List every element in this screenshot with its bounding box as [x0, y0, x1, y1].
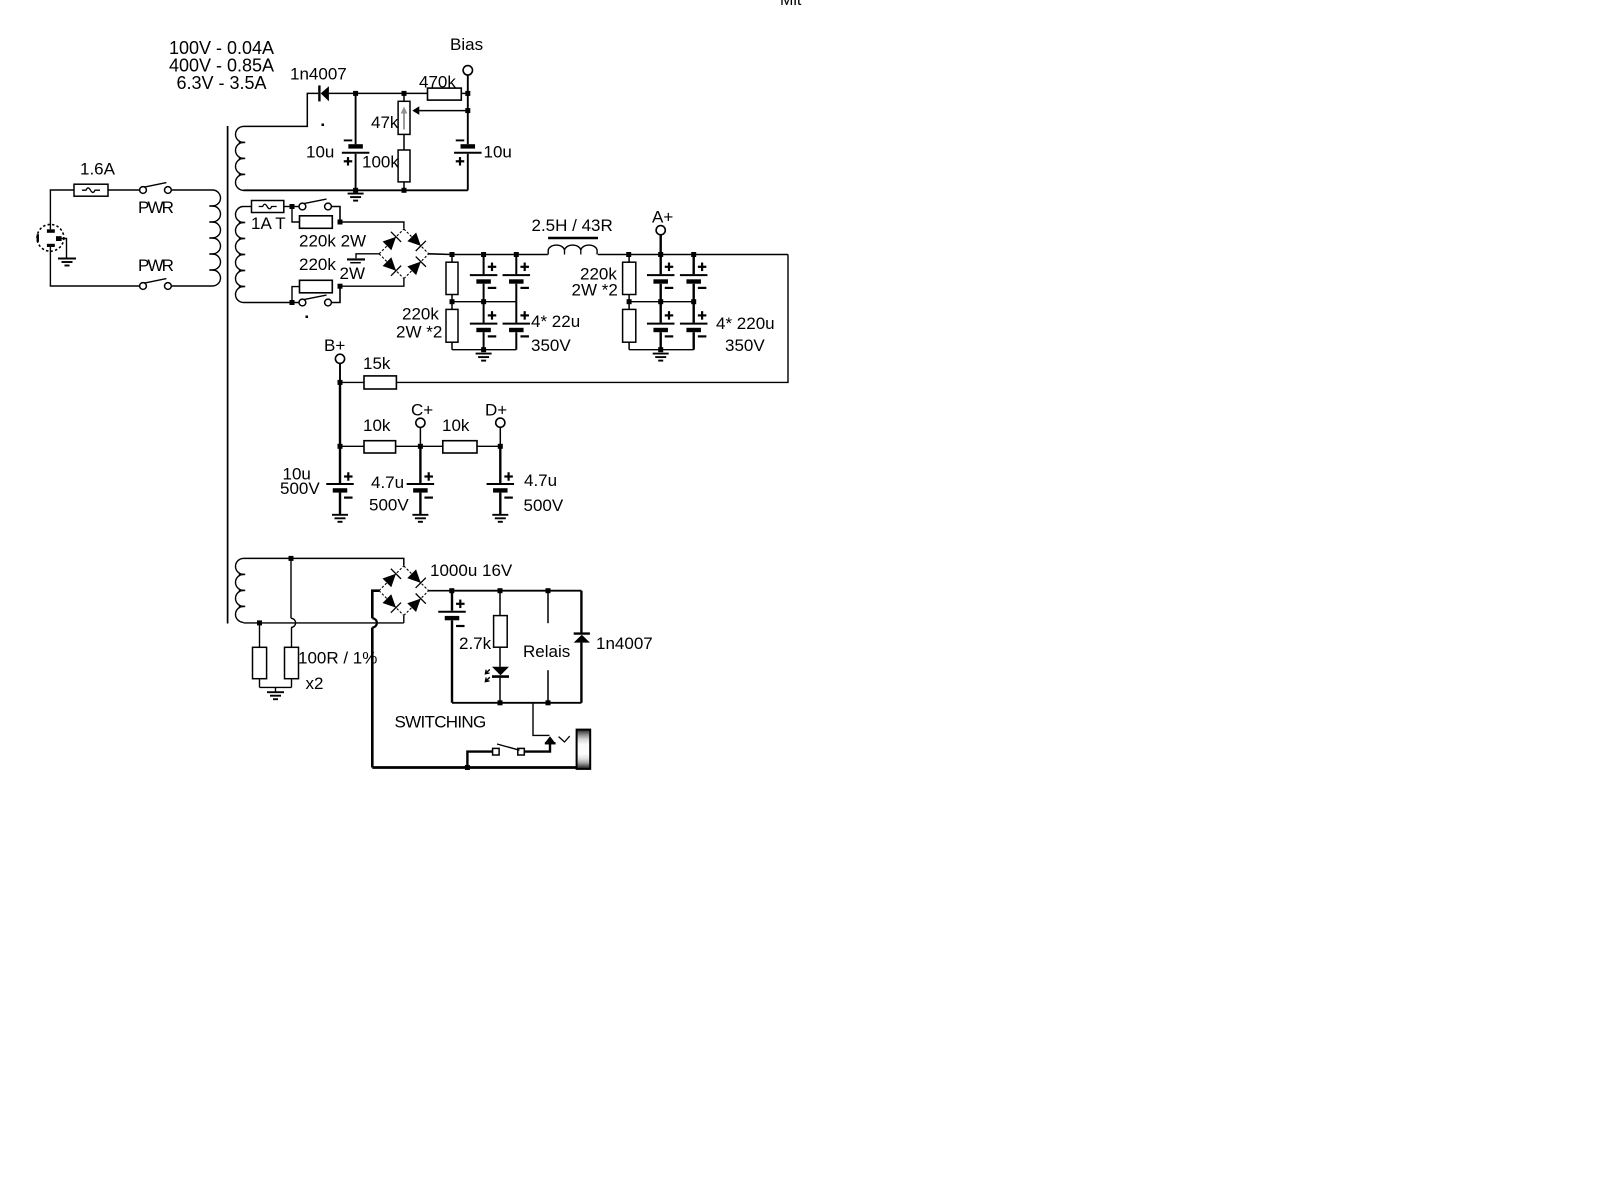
relay K1 coil	[547, 591, 549, 703]
junction mid/C8	[691, 299, 696, 304]
minus C14	[456, 625, 465, 627]
resistor R5 220k (upper left chain)	[446, 255, 458, 302]
wire S5 to bottom rail	[467, 752, 492, 768]
wire junction to R3	[292, 207, 300, 223]
wire A+ to rail	[660, 235, 662, 255]
wire fuse to junction	[284, 206, 299, 208]
bottom row right bank	[629, 349, 694, 351]
junction bottom/LED	[498, 700, 503, 705]
svg-text:D+: D+	[485, 400, 507, 419]
minus C5	[488, 335, 497, 337]
plus C14	[456, 600, 465, 609]
wire BR2 left down to switch row with hop	[372, 591, 379, 768]
svg-text:1n4007: 1n4007	[596, 634, 653, 653]
svg-text:350V: 350V	[725, 336, 765, 355]
plus C10	[698, 311, 707, 320]
minus C12	[424, 497, 433, 499]
terminal A+	[656, 226, 665, 235]
svg-text:10k: 10k	[363, 416, 391, 435]
svg-text:Relais: Relais	[523, 642, 570, 661]
junction LV top / sense wire	[289, 556, 294, 561]
ground left bank	[476, 354, 492, 361]
wire node to bridge top	[340, 222, 404, 229]
junction diode/cap	[353, 91, 358, 96]
plus C4	[520, 263, 529, 272]
svg-text:2.5H / 43R: 2.5H / 43R	[532, 216, 613, 235]
wire B+ node down to 10k row	[339, 382, 341, 446]
label plus C1	[344, 157, 353, 166]
terminal Bias	[463, 66, 472, 75]
svg-text:100R / 1%: 100R / 1%	[298, 648, 377, 667]
svg-text:6.3V - 3.5A: 6.3V - 3.5A	[176, 73, 266, 93]
svg-text:Mit: Mit	[780, 0, 802, 9]
junction BR2/C14	[449, 588, 454, 593]
relay contact arrow	[545, 736, 556, 743]
wire Bias terminal down	[467, 75, 469, 144]
minus C4	[520, 287, 529, 289]
capacitor C2 10u (bias right)	[454, 144, 482, 153]
junction rail/relay	[546, 588, 551, 593]
wire 10k to C+ node	[396, 445, 443, 447]
HV filter rail left	[452, 254, 548, 256]
svg-text:2W *2: 2W *2	[572, 281, 618, 300]
svg-text:500V: 500V	[524, 496, 564, 515]
resistor R11 10k	[443, 441, 477, 453]
label plus C2	[456, 157, 465, 166]
svg-text:2W: 2W	[340, 264, 366, 283]
junction pot top	[402, 91, 407, 96]
wire B+ down	[339, 363, 341, 382]
switch S3 (HV top)	[299, 203, 306, 210]
svg-text:B+: B+	[324, 336, 345, 355]
resistor R13 100R (sense #2)	[285, 647, 299, 687]
ground C13	[492, 515, 508, 522]
minus C7	[665, 287, 674, 289]
junction rail/R7	[626, 252, 631, 257]
terminal C+	[416, 418, 425, 427]
minus C9	[665, 335, 674, 337]
ground C11	[332, 515, 348, 522]
plus C5	[488, 311, 497, 320]
capacitor C4 (22u #2)	[503, 255, 531, 302]
resistor R14 2.7k	[494, 591, 508, 667]
wire S3 to node	[331, 207, 340, 223]
terminal D+	[496, 418, 505, 427]
wire fuse to switch S1	[108, 189, 140, 191]
ground C12	[412, 515, 428, 522]
diode D3 1n4007 (flyback)	[574, 591, 590, 703]
junction 470k right	[465, 91, 470, 96]
svg-text:PWR: PWR	[138, 256, 174, 275]
svg-text:10u: 10u	[306, 143, 334, 162]
label transformer ratings	[169, 38, 274, 93]
label minus C1	[344, 139, 353, 141]
svg-text:470k: 470k	[419, 72, 456, 91]
label 4.7u 500V first	[369, 473, 409, 515]
label minus C2	[456, 139, 465, 141]
ground HV bridge (2 bars)	[347, 259, 365, 262]
junction ground rail / 100k	[402, 188, 407, 193]
capacitor C5 (22u #3)	[470, 302, 498, 350]
capacitor C10 (220u #4)	[680, 302, 708, 350]
wire joining 100R bottoms	[260, 686, 292, 688]
label 4.7u 500V second	[524, 471, 564, 515]
wire HV winding bottom to junction	[244, 302, 300, 304]
junction mid/C7	[658, 299, 663, 304]
minus C11	[344, 497, 353, 499]
svg-text:500V: 500V	[369, 496, 409, 515]
svg-text:220k: 220k	[402, 305, 439, 324]
wire plug-top to fuse	[50, 190, 74, 229]
svg-text:47k: 47k	[371, 113, 399, 132]
wire bottom to bridge	[403, 616, 405, 623]
capacitor C8 (220u #2)	[680, 255, 708, 302]
switch S2 PWR (neutral)	[140, 283, 147, 290]
junction rail/C8	[691, 252, 696, 257]
wire junction to R4	[292, 287, 300, 303]
junction mid/R7	[627, 299, 632, 304]
mid row left bank	[452, 301, 516, 303]
inductor L1 2.5H/43R	[548, 238, 598, 255]
switch S5 output	[493, 744, 525, 755]
transformer core	[227, 126, 229, 624]
wire node to bridge bottom	[340, 279, 404, 286]
capacitor C13 4.7u 500V	[487, 446, 515, 514]
transformer HV secondary winding	[236, 207, 244, 303]
wire C2 to ground rail	[467, 154, 469, 191]
junction rail/C3	[481, 252, 486, 257]
junction winding bottom	[290, 300, 295, 305]
svg-text:C+: C+	[411, 400, 433, 419]
resistor R2 100k	[398, 150, 410, 182]
bottom row left bank	[452, 349, 516, 351]
capacitor C3 (22u #1)	[470, 255, 498, 302]
wire BR2 right to relay rail	[429, 590, 452, 592]
wire HV winding top to fuse	[244, 206, 252, 208]
junction rail/R5	[450, 252, 455, 257]
resistor R7 220k (upper right chain)	[623, 255, 636, 302]
svg-text:220k: 220k	[299, 255, 336, 274]
svg-text:4.7u: 4.7u	[524, 471, 557, 490]
node bias rail	[356, 92, 468, 94]
wire B+ to 15k	[340, 381, 364, 383]
svg-text:1.6A: 1.6A	[80, 160, 116, 179]
wiper arrow of P1	[412, 106, 468, 115]
wire bridge right to filter rail	[429, 253, 452, 256]
switch-row bottom rail	[372, 766, 576, 769]
plus C3	[488, 263, 497, 272]
wire plug-earth	[62, 239, 67, 259]
svg-text:2.7k: 2.7k	[459, 634, 492, 653]
svg-text:100k: 100k	[362, 153, 399, 172]
minus C8	[698, 287, 707, 289]
wire 100k to ground rail	[403, 182, 405, 190]
AC plug P1	[37, 224, 64, 251]
junction D+ node	[498, 444, 503, 449]
svg-text:1n4007: 1n4007	[290, 65, 347, 84]
resistor R3 220k 2W (top bleeder)	[300, 216, 333, 229]
minus C6	[520, 335, 529, 337]
transformer bias secondary winding	[236, 126, 244, 190]
bridge rectifier BR2 (LV)	[379, 566, 429, 616]
transformer LV secondary winding	[236, 558, 244, 622]
potentiometer P1 47k	[398, 93, 410, 134]
relay bottom rail	[452, 702, 581, 704]
earth ground of plug	[58, 259, 76, 266]
junction mid/R5	[450, 299, 455, 304]
relay supply rail	[452, 590, 581, 592]
svg-text:500V: 500V	[280, 479, 320, 498]
svg-text:10u: 10u	[484, 143, 512, 162]
HV filter rail right	[598, 254, 788, 256]
svg-text:10k: 10k	[442, 416, 470, 435]
resistor R9 15k	[364, 376, 396, 389]
transformer T1 primary winding	[213, 190, 221, 286]
junction bottom/C9	[658, 347, 663, 352]
ground right bank	[653, 354, 669, 361]
wire diode to node1	[329, 92, 356, 94]
svg-text:SWITCHING: SWITCHING	[395, 713, 486, 732]
junction R3 right	[338, 220, 343, 225]
junction rail/C4	[514, 252, 519, 257]
wire plug-bottom to switch S2	[50, 247, 139, 286]
stray dot	[322, 124, 325, 127]
svg-text:A+: A+	[652, 207, 673, 226]
wire S1 to primary	[171, 189, 212, 191]
LED D2	[485, 667, 509, 703]
plus C8	[698, 263, 707, 272]
svg-text:4* 220u: 4* 220u	[716, 314, 775, 333]
switch S1 PWR (line)	[140, 187, 147, 194]
resistor R12 100R (sense #1)	[253, 623, 267, 688]
wire relay to contact	[533, 703, 550, 736]
junction ground rail / C1	[353, 188, 358, 193]
wire C+ down	[419, 427, 421, 446]
terminal B+	[335, 354, 344, 363]
label 10u 500V	[280, 465, 320, 499]
resistor R8 220k (lower right chain)	[623, 302, 636, 350]
capacitor C9 (220u #3)	[647, 302, 675, 350]
wire S4 to node	[331, 286, 340, 302]
wire S2 to primary bottom	[171, 285, 212, 287]
wire bias winding top to diode	[244, 93, 319, 126]
ground bias	[348, 194, 364, 201]
plus C12	[424, 472, 433, 481]
bridge rectifier BR1 (HV)	[379, 229, 429, 279]
svg-text:PWR: PWR	[138, 198, 174, 217]
junction fuse out	[290, 204, 295, 209]
wire contact to switch S5	[524, 743, 550, 751]
minus C13	[504, 497, 512, 499]
svg-text:15k: 15k	[363, 354, 391, 373]
bias ground rail	[244, 189, 468, 191]
feedback loop right side	[396, 255, 788, 383]
junction B node row2	[338, 444, 343, 449]
capacitor C7 (220u #1)	[647, 255, 675, 302]
mid row right bank	[629, 301, 694, 303]
svg-text:220k 2W: 220k 2W	[299, 231, 366, 250]
junction bottom rail	[465, 765, 470, 770]
svg-text:Bias: Bias	[450, 35, 483, 54]
svg-text:2W *2: 2W *2	[396, 322, 442, 341]
junction C+ node	[418, 444, 423, 449]
junction rail/R14	[498, 588, 503, 593]
plus C11	[344, 472, 353, 481]
output jack J1	[577, 730, 591, 769]
junction bottom/C5	[481, 347, 486, 352]
wire to 10k	[340, 445, 364, 447]
junction R4 right	[338, 284, 343, 289]
fuse F2 1A T	[252, 201, 284, 213]
stray dot 2	[306, 316, 309, 319]
svg-text:4* 22u: 4* 22u	[531, 312, 580, 331]
capacitor C14 1000u 16V	[438, 591, 466, 703]
svg-text:4.7u: 4.7u	[371, 473, 404, 492]
wire C1 to ground rail	[355, 154, 357, 191]
wire D+ down	[499, 427, 501, 446]
plus C6	[520, 311, 529, 320]
junction mid/C3	[481, 299, 486, 304]
plus C7	[665, 263, 674, 272]
resistor R10 10k	[364, 441, 396, 453]
plus C9	[665, 311, 674, 320]
relay contact lever mark	[559, 736, 570, 742]
wire pot to 100k	[403, 134, 405, 150]
plus C13	[504, 472, 512, 481]
ground 100R pair	[267, 687, 284, 699]
wire LV winding top to bridge	[244, 558, 404, 565]
capacitor C12 4.7u 500V	[407, 446, 435, 514]
switch S4 (HV bottom)	[299, 299, 306, 306]
junction bottom/relay	[546, 700, 551, 705]
minus C10	[698, 335, 707, 337]
junction rail/C7 A+	[658, 252, 663, 257]
wire sense down with hop	[291, 558, 296, 647]
junction LV bottom / R12	[257, 620, 262, 625]
capacitor C1 10u (bias left)	[355, 93, 357, 144]
wire LV winding bottom	[244, 622, 404, 624]
resistor R1 470k	[428, 88, 462, 100]
minus C3	[488, 287, 497, 289]
fuse F1 1.6A	[74, 184, 108, 196]
capacitor C11 10u 500V	[326, 446, 354, 514]
resistor R6 220k (lower left chain)	[446, 302, 458, 350]
junction wiper/bias line	[465, 108, 470, 113]
svg-text:1000u 16V: 1000u 16V	[430, 561, 513, 580]
wire bridge left to ground	[356, 254, 379, 258]
capacitor C6 (22u #4)	[503, 302, 531, 350]
wire 10k to D+ node	[477, 445, 500, 447]
svg-text:x2: x2	[306, 674, 324, 693]
junction B+/15k	[338, 380, 343, 385]
svg-text:1A T: 1A T	[251, 214, 286, 233]
svg-text:350V: 350V	[531, 336, 571, 355]
diode D1 1n4007 (bias)	[319, 85, 329, 101]
resistor R4 220k 2W (bottom bleeder)	[300, 280, 333, 293]
cap C1 plates	[342, 144, 370, 153]
